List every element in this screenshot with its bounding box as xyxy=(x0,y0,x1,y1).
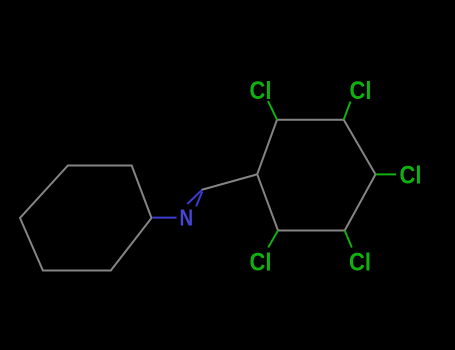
svg-text:Cl: Cl xyxy=(349,248,371,276)
svg-text:Cl: Cl xyxy=(350,77,372,105)
svg-text:Cl: Cl xyxy=(250,77,272,105)
svg-text:N: N xyxy=(180,206,194,231)
svg-text:Cl: Cl xyxy=(250,248,272,276)
svg-text:Cl: Cl xyxy=(400,161,422,189)
